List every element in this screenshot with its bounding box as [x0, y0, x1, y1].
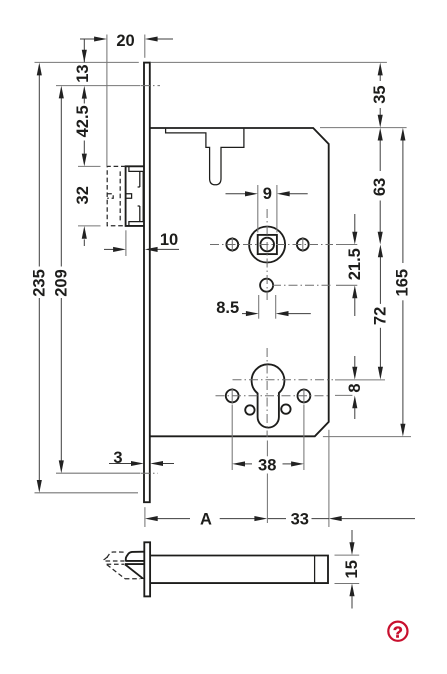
follower square [258, 235, 277, 254]
small hole right below cylinder [281, 404, 290, 413]
follower inner circle [260, 238, 274, 252]
dim line 20 [80, 32, 173, 50]
svg-text:?: ? [393, 624, 403, 641]
dim 15 [335, 530, 362, 609]
case top extension line right [320, 127, 407, 129]
dim 8.5 [216, 295, 311, 319]
svg-text:9: 9 [263, 185, 272, 203]
centerline horizontal through cylinder screws [216, 395, 331, 397]
lock case outline [150, 128, 329, 436]
vertical centerline follower/cylinder [266, 209, 268, 300]
case bottom extension line right [323, 436, 411, 438]
svg-text:72: 72 [371, 307, 389, 325]
svg-text:20: 20 [116, 32, 134, 50]
bottom view: latch head solid [125, 552, 144, 579]
small hole left below cylinder [245, 405, 254, 414]
hole 8.5 below follower [260, 279, 273, 292]
svg-text:21.5: 21.5 [346, 248, 364, 280]
follower outer circle [249, 227, 285, 263]
centerline horizontal through follower [210, 244, 333, 246]
svg-text:13: 13 [74, 64, 92, 82]
help icon [388, 622, 407, 642]
svg-text:8: 8 [346, 383, 364, 392]
dim 38 [232, 405, 304, 475]
svg-text:A: A [200, 510, 212, 528]
screw hole left of cylinder [226, 390, 239, 403]
dim 9 above follower [226, 185, 308, 233]
dim 165 [394, 128, 412, 437]
screw hole left of follower [226, 239, 238, 251]
centerline horizontal through cylinder [233, 379, 334, 381]
bottom view: latch head extended dashed [104, 552, 140, 579]
svg-text:10: 10 [160, 231, 178, 249]
dim 13 / 42.5 / 32 stack at x=84.3 [74, 39, 100, 246]
svg-text:35: 35 [371, 85, 389, 103]
screw hole right of follower [297, 239, 309, 251]
euro profile cylinder [252, 364, 285, 427]
latch guide slot at case top [166, 129, 244, 185]
screw hole right of cylinder [298, 390, 311, 403]
bottom view: bolt body [150, 556, 328, 584]
screw hole vertical ticks [231, 237, 233, 252]
latch bolt retracted (solid) [126, 166, 144, 226]
svg-text:3: 3 [113, 449, 122, 467]
dim line 209 [52, 86, 70, 474]
dim 3 [109, 449, 174, 467]
reference line 235 bottom [35, 492, 139, 494]
svg-text:209: 209 [52, 269, 70, 297]
svg-text:235: 235 [30, 269, 48, 297]
dim 35 [371, 63, 389, 128]
faceplate top extension line [35, 61, 139, 63]
svg-text:15: 15 [343, 560, 361, 578]
svg-text:63: 63 [371, 178, 389, 196]
centerline at 13 below top [56, 85, 141, 87]
dim A / 33 [145, 430, 415, 529]
dim 8 [346, 356, 364, 419]
dim line 235 [30, 63, 48, 493]
centerline horizontal through 8.5 hole [272, 284, 332, 286]
svg-text:165: 165 [394, 269, 412, 297]
svg-text:42.5: 42.5 [74, 105, 92, 137]
latch bolt extended (dashed) [107, 166, 125, 225]
svg-text:38: 38 [258, 457, 276, 475]
dim 21.5 [346, 214, 364, 316]
dim 72 [371, 245, 389, 380]
svg-text:32: 32 [74, 186, 92, 204]
bottom view: faceplate [144, 542, 150, 596]
dim 63 [371, 128, 389, 245]
svg-text:8.5: 8.5 [216, 299, 239, 317]
reference line 209 bottom [56, 472, 141, 474]
dim 10 [104, 230, 179, 256]
bolt end cap line [314, 556, 316, 584]
extension line right for 20-dim [144, 35, 146, 58]
svg-text:33: 33 [291, 510, 309, 528]
faceplate front view [144, 63, 150, 503]
extension line from 20-dim down to latch [106, 35, 108, 167]
